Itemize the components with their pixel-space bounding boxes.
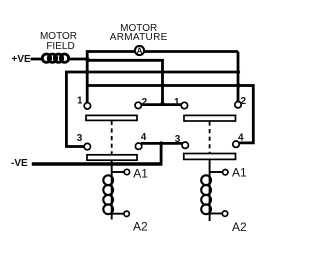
motor armature symbol A xyxy=(135,46,144,55)
coil right A2 wire xyxy=(210,213,222,215)
terminal R3 xyxy=(182,142,188,148)
wire armature top bus with left vertical xyxy=(87,52,238,103)
wire field output to junction xyxy=(67,58,87,61)
svg-text:+VE: +VE xyxy=(12,54,32,65)
wire lower bus to right contact 4 xyxy=(87,86,253,143)
terminal R4 xyxy=(233,141,239,147)
svg-text:4: 4 xyxy=(141,132,147,143)
svg-text:4: 4 xyxy=(238,133,244,144)
contact bar right top xyxy=(184,115,236,121)
coil right A1 wire xyxy=(210,171,223,173)
label MOTOR FIELD xyxy=(40,31,77,52)
svg-text:A2: A2 xyxy=(232,220,247,234)
junction field node xyxy=(85,57,89,61)
svg-text:ARMATURE: ARMATURE xyxy=(110,32,168,43)
coil left A2 wire xyxy=(112,213,124,215)
wire field node to L2/R1 tie xyxy=(87,60,162,103)
wire armature right vertical xyxy=(237,52,240,102)
terminal L4 xyxy=(135,143,141,149)
junction tie bar top xyxy=(161,102,165,106)
terminal L3 xyxy=(84,143,90,149)
dashed link left xyxy=(111,121,113,155)
terminal R1 xyxy=(181,102,187,108)
junction right lower bus xyxy=(236,83,240,87)
wire tie drop xyxy=(160,143,163,163)
svg-text:A1: A1 xyxy=(232,166,247,180)
svg-text:FIELD: FIELD xyxy=(46,41,74,52)
svg-text:3: 3 xyxy=(175,134,181,145)
coil left A1 wire xyxy=(112,171,124,173)
label MOTOR ARMATURE xyxy=(110,23,168,43)
coil link left xyxy=(111,160,113,220)
svg-text:A1: A1 xyxy=(133,166,148,180)
tie wire L4-R3 xyxy=(141,142,182,145)
contact bar left bottom xyxy=(87,155,137,160)
junction right middle bus xyxy=(236,70,240,74)
wire +VE feed xyxy=(31,58,43,61)
coil A1-A2 left loops xyxy=(103,175,113,214)
terminal L2 xyxy=(135,102,141,108)
svg-text:1: 1 xyxy=(77,96,83,107)
junction left branch xyxy=(85,70,89,74)
coil right A1 terminal xyxy=(223,170,228,175)
svg-text:3: 3 xyxy=(77,133,83,144)
svg-text:2: 2 xyxy=(142,97,148,108)
coil A1-A2 right loops xyxy=(201,175,211,214)
wire -VE to tie xyxy=(32,162,163,165)
coil right A2 terminal xyxy=(222,211,227,216)
wire to left contact 3 xyxy=(66,72,87,147)
dashed link right xyxy=(209,121,211,153)
junction tie wire bottom xyxy=(159,141,163,145)
contact bar right bottom xyxy=(184,154,236,160)
svg-text:-VE: -VE xyxy=(11,158,28,169)
tie bar L2-R1 xyxy=(141,103,181,106)
terminal L1 xyxy=(84,103,90,109)
contact bar left top xyxy=(86,115,137,120)
coil left A2 terminal xyxy=(124,211,129,216)
inductor motor field L1 xyxy=(42,54,68,62)
coil link right xyxy=(209,159,211,221)
terminal R2 xyxy=(235,102,241,108)
svg-text:A2: A2 xyxy=(133,220,148,234)
wire middle bus xyxy=(87,71,238,74)
svg-text:2: 2 xyxy=(241,96,247,107)
svg-text:A: A xyxy=(137,47,143,56)
svg-text:1: 1 xyxy=(174,97,180,108)
coil left A1 terminal xyxy=(124,169,129,174)
